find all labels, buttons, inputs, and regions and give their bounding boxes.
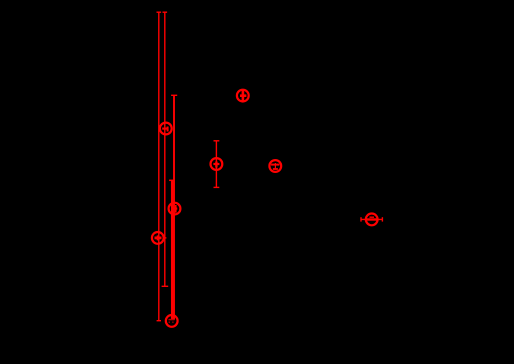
data point M3 circle [211,158,223,170]
error bar A bottom cap [157,320,161,322]
data point M4 lower dash [273,168,278,170]
data point M6 circle [152,232,164,244]
data point M6 y-error dash [157,235,159,240]
data point M2 y-error top cap [241,89,245,91]
data point M2 x-error dash [240,94,246,97]
error bar E top cap [214,140,220,142]
data point M2 y-error line [242,90,245,101]
data point M4 circle [269,160,281,172]
error bar D vertical line [171,180,173,319]
error bar B top cap [163,11,168,13]
data point M6 x-error dash [155,236,162,239]
error bar B vertical line [164,12,166,286]
data point M8 x-error right cap [381,217,383,221]
data point M8 x-error left cap [360,217,362,221]
error bar A top cap [157,11,162,13]
data point M1 y-error dash [167,127,169,132]
data point M8 circle [366,214,378,226]
data point M5 circle [169,203,181,215]
error bar B bottom cap [162,285,169,287]
data point M8 upper dash [370,216,375,218]
data point M8 x-error line [361,218,382,220]
data point M6 right tick on bar B [164,237,167,239]
data point M5 y-error dash [175,205,177,213]
error bar D top cap [169,179,174,181]
error bar C/D bottom cap [169,319,175,321]
data point M3 x-error dash [213,163,219,165]
data point M1 circle [160,123,172,135]
data point M8 x-error dash [366,218,378,220]
data point M5 x-error dash [172,208,178,210]
data point M1 x-error dash [162,128,168,130]
data point M4 y-error line [274,163,276,170]
error bar E bottom cap [214,186,220,188]
error bar E vertical line [215,141,217,188]
error bar A vertical line [158,12,160,321]
data point M2 y-error bottom cap [241,100,245,102]
data point M7 interior dots [169,321,170,323]
data point M2 circle [237,90,249,102]
error bar C vertical line [173,95,175,319]
error bar C top cap [171,94,177,96]
data point M3 y-error dash [215,162,217,168]
data point M4 x-error dash [271,164,279,166]
data point M7 circle [166,315,178,327]
